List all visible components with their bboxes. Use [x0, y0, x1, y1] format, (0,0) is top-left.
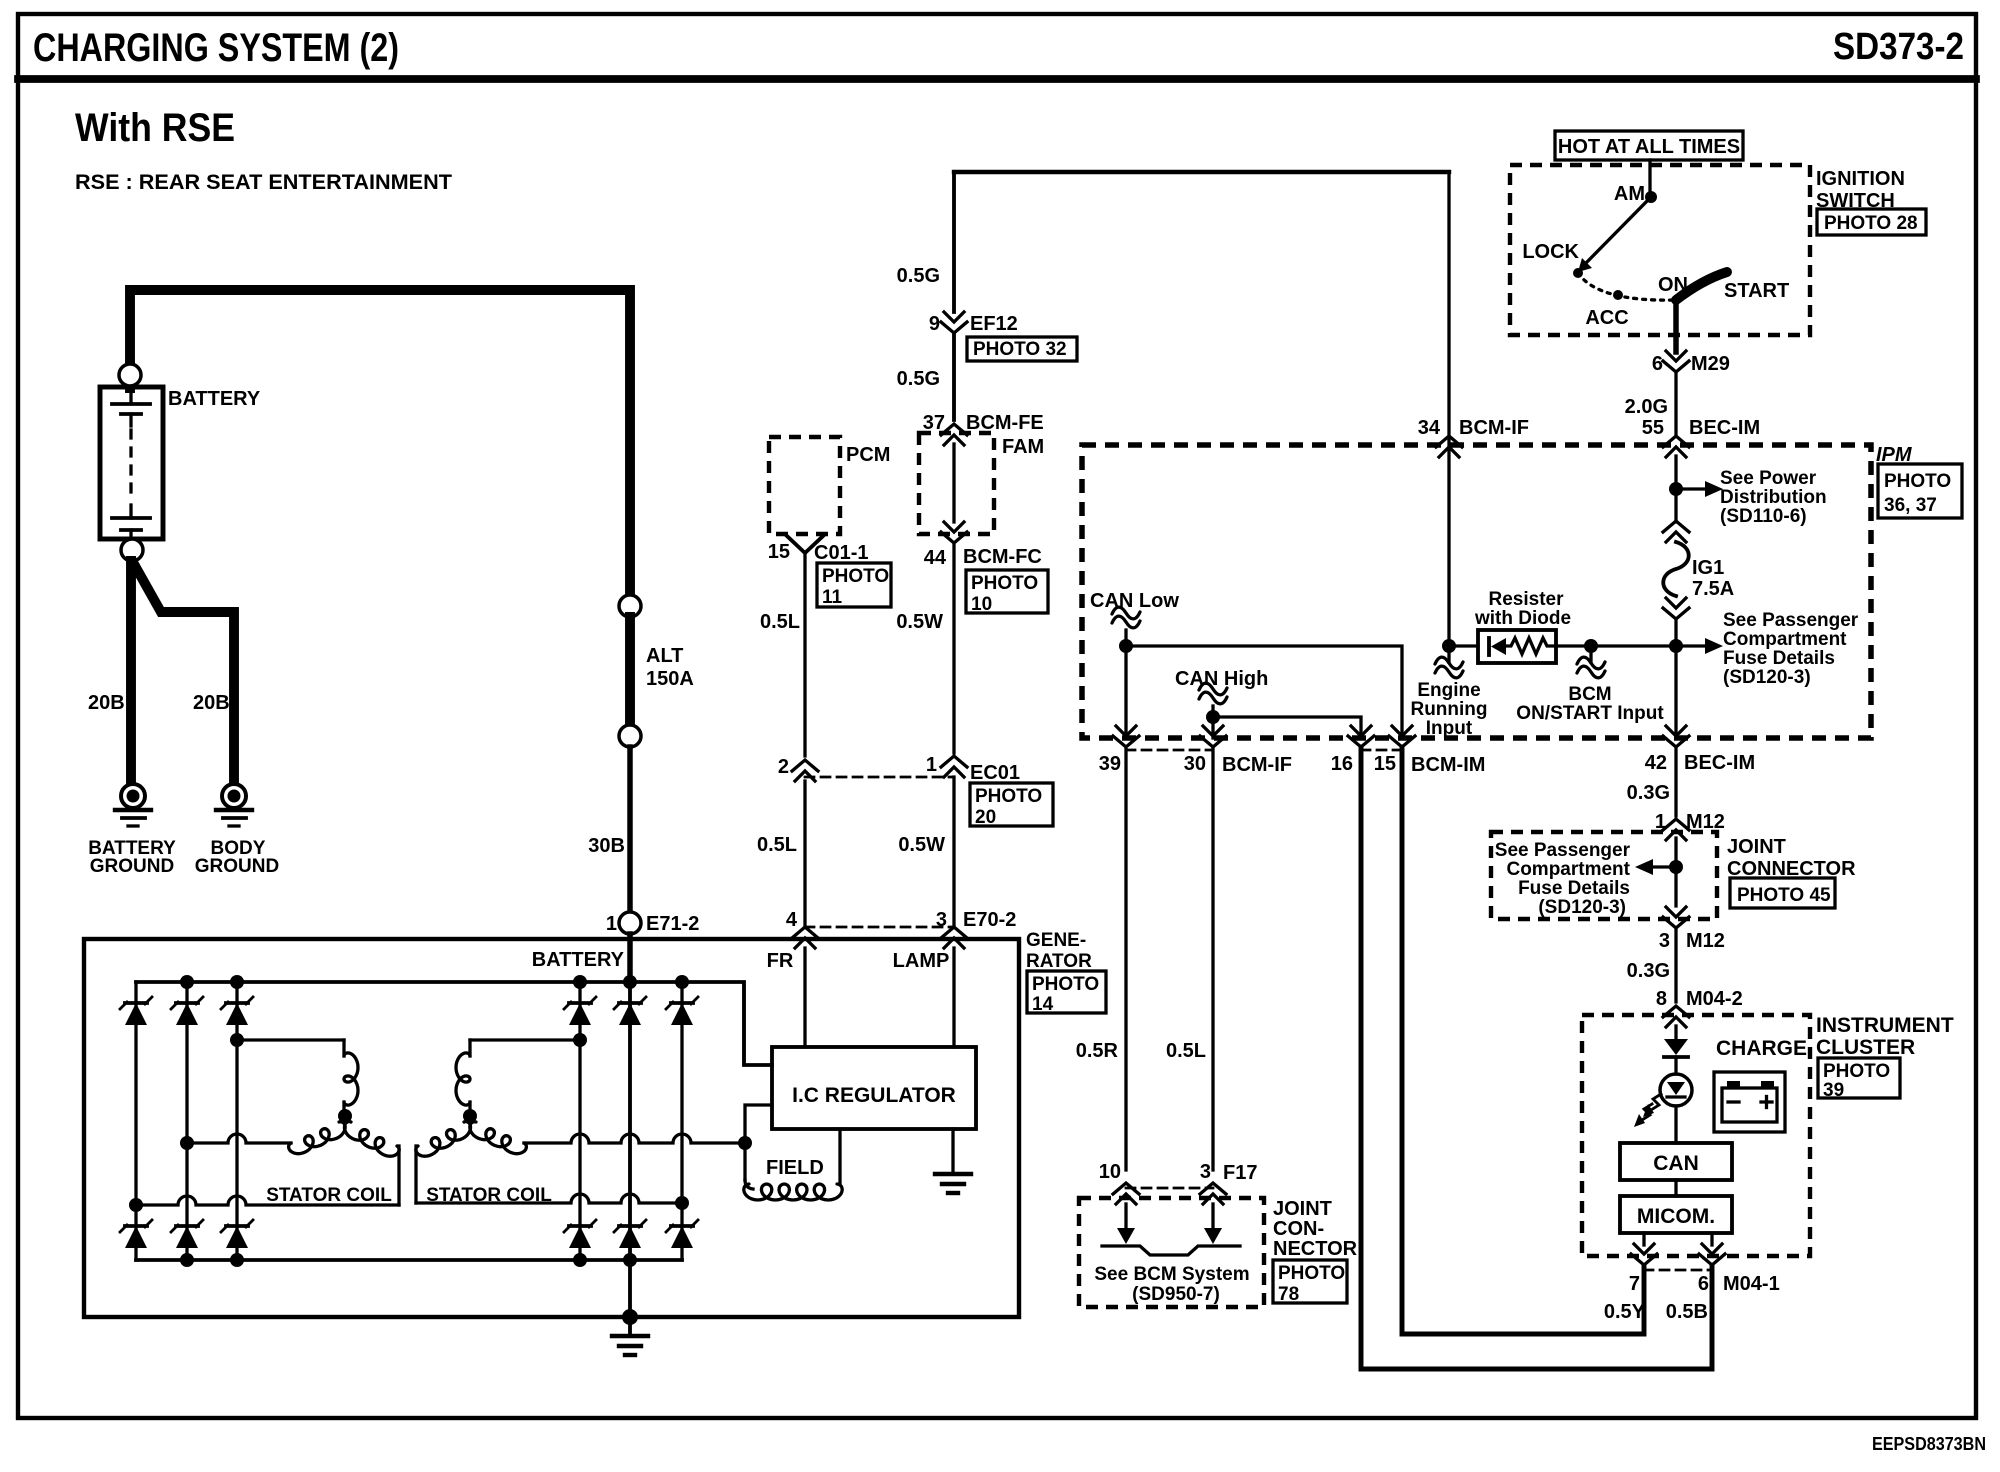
svg-text:0.5G: 0.5G [897, 368, 940, 390]
svg-text:0.3G: 0.3G [1627, 960, 1670, 982]
wire field return to regulator [838, 1129, 841, 1183]
photo box PHOTO 45 label [1730, 878, 1835, 908]
connector F17 pin 10 [1113, 1183, 1139, 1194]
svg-text:CLUSTER: CLUSTER [1816, 1036, 1915, 1059]
svg-text:IGNITION: IGNITION [1816, 168, 1905, 190]
svg-text:(SD120-3): (SD120-3) [1538, 897, 1626, 918]
svg-text:FAM: FAM [1002, 436, 1044, 458]
svg-text:PHOTO 28: PHOTO 28 [1824, 213, 1918, 234]
PCM box [769, 437, 840, 534]
svg-text:PHOTO: PHOTO [1278, 1263, 1345, 1284]
photo box PHOTO 20 [970, 783, 1053, 826]
connector 30 BCM-IF [1200, 736, 1226, 747]
svg-text:See Passenger: See Passenger [1723, 610, 1859, 631]
wire diode column 4 [578, 982, 581, 1260]
svg-text:ON/START Input: ON/START Input [1516, 703, 1664, 724]
wire stator1 right phase to column 1 (hops) [397, 1146, 400, 1205]
svg-text:I.C REGULATOR: I.C REGULATOR [792, 1084, 956, 1107]
connector EC01 pin 1 [941, 756, 967, 767]
svg-text:BCM: BCM [1568, 684, 1611, 705]
svg-text:CAN Low: CAN Low [1090, 590, 1179, 612]
svg-text:55: 55 [1642, 417, 1664, 439]
battery icon [1714, 1072, 1785, 1132]
svg-text:44: 44 [924, 547, 947, 569]
svg-text:(SD110-6): (SD110-6) [1720, 506, 1807, 527]
svg-text:Engine: Engine [1417, 680, 1480, 701]
diode D2 top [176, 1003, 198, 1025]
connector 16 BCM-IM [1348, 736, 1374, 747]
switch lever ON to START (thick) [1676, 272, 1727, 300]
svg-text:EC01: EC01 [970, 762, 1020, 784]
diode D5 top [619, 1003, 641, 1025]
svg-text:ACC: ACC [1585, 307, 1628, 329]
wire through joint connector [1674, 838, 1677, 906]
connector 39 BCM-IF [1113, 736, 1139, 747]
node AM terminal [1645, 191, 1657, 203]
svg-text:150A: 150A [646, 668, 694, 690]
wire resistor to junction [1556, 644, 1676, 647]
svg-text:8: 8 [1656, 988, 1667, 1010]
svg-text:Resister: Resister [1489, 589, 1565, 610]
svg-text:3: 3 [1659, 930, 1670, 952]
BCM on/start input stub [1589, 646, 1592, 662]
svg-text:20B: 20B [193, 692, 230, 714]
svg-text:Compartment: Compartment [1723, 629, 1847, 650]
svg-text:0.5B: 0.5B [1666, 1301, 1708, 1323]
ground generator [628, 1317, 632, 1336]
wire stator2 right phase to field junction (hops) [524, 1134, 745, 1143]
diode D4 bottom [569, 1226, 591, 1248]
instrument cluster box [1582, 1015, 1810, 1256]
connector E71-2 pin 1 [619, 912, 641, 934]
wire ON output [1673, 300, 1679, 352]
svg-text:PCM: PCM [846, 444, 890, 466]
wire 0.5R to F17-10 [1124, 747, 1127, 1170]
LED arrows [1651, 1094, 1661, 1110]
dashed connector pair line EC01 [805, 776, 954, 779]
connector 42 BEC-IM [1663, 736, 1689, 747]
dashed pair 39-30 [1126, 749, 1213, 752]
connector 34 BCM-IF [1436, 436, 1462, 447]
svg-text:RATOR: RATOR [1026, 951, 1092, 972]
title divider [18, 75, 1976, 83]
joint connector box PHOTO 45 [1491, 832, 1717, 919]
wire BCM-IM 15 to cluster pin 7 [1402, 747, 1644, 1334]
wire CAN high to BCM-IM 16 [1213, 717, 1361, 738]
fuse IG1 7.5A [1663, 521, 1689, 532]
connector 55 BEC-IM [1663, 436, 1689, 447]
wire 0.5G lower [952, 333, 956, 420]
svg-text:HOT AT ALL TIMES: HOT AT ALL TIMES [1558, 136, 1740, 158]
connector 44 BCM-FC [941, 532, 967, 543]
photo box PHOTO 36 37 [1878, 464, 1962, 518]
svg-text:CHARGE: CHARGE [1716, 1037, 1807, 1060]
wire diode column 1 [134, 982, 137, 1260]
stator coil 1 right winding [345, 1122, 400, 1157]
svg-text:0.5G: 0.5G [897, 265, 940, 287]
svg-text:START: START [1724, 280, 1789, 302]
svg-text:BEC-IM: BEC-IM [1684, 752, 1755, 774]
wire BEC-IM into IPM [1674, 456, 1677, 522]
connector M04-2 pin 8 [1663, 1006, 1689, 1017]
diode D4 top [569, 1003, 591, 1025]
svg-text:M04-1: M04-1 [1723, 1273, 1780, 1295]
svg-text:BEC-IM: BEC-IM [1689, 417, 1760, 439]
connector F17 pin 3 [1200, 1183, 1226, 1194]
svg-text:15: 15 [1374, 753, 1396, 775]
diode D1 bottom [125, 1226, 147, 1248]
photo box PHOTO 78 label [1273, 1260, 1347, 1303]
photo box PHOTO 32 [967, 337, 1077, 361]
svg-text:AM: AM [1614, 183, 1645, 205]
svg-text:10: 10 [1099, 1161, 1121, 1183]
svg-text:7.5A: 7.5A [1692, 578, 1734, 600]
svg-text:1: 1 [1655, 811, 1666, 833]
svg-text:See Passenger: See Passenger [1495, 840, 1631, 861]
svg-text:LAMP: LAMP [893, 950, 950, 972]
svg-text:EEPSD8373BN: EEPSD8373BN [1872, 1434, 1986, 1454]
FAM box [919, 433, 994, 534]
svg-text:FR: FR [767, 950, 794, 972]
svg-text:0.5W: 0.5W [898, 834, 945, 856]
wire ALT to E71-2 [627, 747, 633, 912]
svg-text:4: 4 [786, 909, 798, 931]
svg-text:M04-2: M04-2 [1686, 988, 1743, 1010]
svg-text:INSTRUMENT: INSTRUMENT [1816, 1014, 1954, 1037]
svg-text:E71-2: E71-2 [646, 913, 699, 935]
svg-text:Compartment: Compartment [1506, 859, 1630, 880]
svg-text:PHOTO: PHOTO [1884, 471, 1951, 492]
svg-text:Fuse Details: Fuse Details [1723, 648, 1835, 669]
svg-text:GROUND: GROUND [90, 856, 174, 877]
svg-text:JOINT: JOINT [1727, 836, 1786, 858]
joint connector box PHOTO 78 [1079, 1198, 1264, 1307]
svg-text:BCM-IM: BCM-IM [1411, 754, 1485, 776]
svg-text:Running: Running [1410, 699, 1487, 720]
wire hot feed to AM [1648, 160, 1651, 196]
CAN box [1620, 1143, 1732, 1180]
node ACC position [1613, 290, 1623, 300]
svg-text:PHOTO 45: PHOTO 45 [1737, 885, 1831, 906]
svg-text:BCM-FC: BCM-FC [963, 546, 1042, 568]
svg-text:0.5W: 0.5W [896, 611, 943, 633]
svg-text:0.5R: 0.5R [1076, 1040, 1119, 1062]
field coil [743, 1143, 746, 1180]
arrow F17-3 into bus [1211, 1204, 1214, 1230]
regulator U1 I.C REGULATOR [772, 1047, 976, 1129]
node bottom bus junctions [180, 1253, 194, 1267]
arrow to power distribution [1683, 487, 1705, 490]
wire MICOM pin7 [1642, 1233, 1645, 1245]
connector C01-1 pin 15 fanout [787, 536, 823, 553]
HOT AT ALL TIMES box [1555, 131, 1743, 160]
arrow to passenger fuse details left [1653, 865, 1669, 868]
svg-text:PHOTO: PHOTO [971, 573, 1038, 594]
svg-text:2.0G: 2.0G [1625, 396, 1668, 418]
svg-text:16: 16 [1331, 753, 1353, 775]
svg-text:0.3G: 0.3G [1627, 782, 1670, 804]
svg-text:ALT: ALT [646, 645, 683, 667]
wire stator1 left phase to column 2 (hop over col3) [187, 1134, 291, 1143]
node power distribution tap [1669, 482, 1683, 496]
svg-text:30: 30 [1184, 753, 1206, 775]
node top bus junctions [180, 975, 194, 989]
svg-text:with Diode: with Diode [1474, 608, 1571, 629]
connector M12 pin 3 [1663, 917, 1689, 928]
connector 15 BCM-IM [1389, 736, 1415, 747]
svg-text:9: 9 [929, 313, 940, 335]
svg-text:37: 37 [923, 412, 945, 434]
connector EF12 pin 9 [941, 322, 967, 333]
wire battery column through generator [628, 982, 632, 1317]
svg-text:GENE-: GENE- [1026, 930, 1086, 951]
node resistor input [1442, 639, 1456, 653]
arrow to passenger fuse details [1683, 644, 1705, 647]
svg-text:C01-1: C01-1 [814, 542, 868, 564]
svg-text:JOINT: JOINT [1273, 1198, 1332, 1220]
svg-text:(SD950-7): (SD950-7) [1132, 1284, 1220, 1305]
connector EC01 pin 2 [792, 760, 818, 771]
svg-text:42: 42 [1645, 752, 1667, 774]
svg-text:1: 1 [926, 754, 937, 776]
stator coil 2 vertical winding [468, 1040, 471, 1056]
svg-text:E70-2: E70-2 [963, 909, 1016, 931]
arrow F17-10 into bus [1124, 1204, 1127, 1230]
dashed pair M04-1 [1644, 1269, 1712, 1272]
switch travel arc LOCK-ACC-ON [1578, 273, 1676, 300]
connector M04-1 pin 6 [1699, 1254, 1725, 1265]
wire diode column 3 [235, 982, 238, 1260]
svg-text:15: 15 [768, 541, 790, 563]
svg-text:PHOTO: PHOTO [975, 786, 1042, 807]
stator coil 2 right winding [470, 1122, 527, 1154]
photo box PHOTO 10 [966, 570, 1048, 613]
battery bottom terminal [121, 539, 143, 561]
svg-text:FIELD: FIELD [766, 1157, 824, 1179]
battery B1 [100, 387, 163, 539]
svg-text:(SD120-3): (SD120-3) [1723, 667, 1811, 688]
svg-text:CAN: CAN [1653, 1152, 1699, 1175]
engine running input stub [1447, 646, 1450, 662]
svg-text:0.5L: 0.5L [1166, 1040, 1206, 1062]
wire fuse to junction [1674, 621, 1677, 738]
generator box [84, 939, 1019, 1317]
svg-text:3: 3 [1200, 1161, 1211, 1183]
svg-text:14: 14 [1032, 994, 1054, 1015]
wire generator bottom bus [136, 1258, 682, 1262]
wire battery negative to grounds (thick) [126, 561, 136, 784]
wire BCM-IF drop [1447, 172, 1450, 646]
wire 2.0G [1674, 372, 1677, 434]
wire top link EF12 to BCM-IF [954, 170, 1449, 174]
svg-text:STATOR COIL: STATOR COIL [266, 1185, 392, 1206]
svg-text:Distribution: Distribution [1720, 487, 1827, 508]
stator coil 2 left winding [416, 1122, 471, 1157]
dashed pair 16-15 [1361, 749, 1402, 752]
svg-text:0.5L: 0.5L [757, 834, 797, 856]
node field junction [738, 1136, 752, 1150]
svg-text:2: 2 [778, 756, 789, 778]
diode cluster [1664, 1039, 1688, 1055]
wire 0.5W upper [952, 545, 955, 753]
resistor with diode R1 [1449, 644, 1478, 647]
svg-text:PHOTO 32: PHOTO 32 [973, 339, 1067, 360]
node CAN low tap [1119, 639, 1133, 653]
wire battery positive to ALT (thick) [130, 290, 630, 596]
svg-text:M12: M12 [1686, 930, 1725, 952]
connector 37 BCM-FE [941, 424, 967, 435]
wire FR into regulator [803, 948, 806, 1047]
svg-text:36, 37: 36, 37 [1884, 495, 1937, 516]
dashed connector pair line E70-2 [805, 926, 954, 929]
svg-text:See Power: See Power [1720, 468, 1817, 489]
node BCM junction [1669, 639, 1683, 653]
wire inside FAM [952, 444, 955, 522]
node generator ground junction [622, 1309, 638, 1325]
svg-text:1: 1 [606, 913, 617, 935]
svg-text:20B: 20B [88, 692, 125, 714]
dashed pair F17 [1126, 1187, 1213, 1190]
svg-text:10: 10 [971, 594, 992, 615]
svg-text:20: 20 [975, 807, 996, 828]
IPM box [1082, 445, 1871, 738]
node fuse details tap [1669, 860, 1683, 874]
wire into cluster [1674, 1026, 1677, 1040]
svg-text:M29: M29 [1691, 353, 1730, 375]
wire 0.3G lower [1674, 928, 1677, 1002]
wire CAN low to BCM-IM 15 [1126, 646, 1402, 738]
MICOM box [1620, 1196, 1732, 1233]
svg-text:BCM-IF: BCM-IF [1459, 417, 1529, 439]
photo box PHOTO 39 [1818, 1058, 1900, 1098]
wire 0.5L upper [803, 553, 806, 756]
node BCM on/start tap [1584, 639, 1598, 653]
node LOCK position [1573, 268, 1583, 278]
svg-text:BATTERY: BATTERY [168, 388, 261, 410]
svg-text:78: 78 [1278, 1284, 1299, 1305]
wire LAMP into regulator [952, 948, 955, 1047]
node stator2 centre [463, 1109, 477, 1123]
connector 3 LAMP at generator [941, 927, 967, 938]
wire 0.5L lower [803, 781, 806, 927]
wire MICOM pin6 [1710, 1233, 1713, 1245]
svg-text:GROUND: GROUND [195, 856, 279, 877]
ignition switch box [1510, 165, 1810, 335]
svg-text:EF12: EF12 [970, 313, 1018, 335]
svg-text:CON-: CON- [1273, 1218, 1324, 1240]
switch lever AM to LOCK [1585, 197, 1651, 264]
wire stator2 left phase to column 6 (hops) [414, 1146, 417, 1203]
diode D1 top [125, 1003, 147, 1025]
connector 4 FR at generator [792, 927, 818, 938]
wire regulator lower-left to field junction [745, 1105, 772, 1143]
wire LED to CAN [1674, 1106, 1677, 1143]
svg-text:F17: F17 [1223, 1162, 1257, 1184]
wire 0.5W lower [952, 777, 955, 927]
diode D5 bottom [619, 1226, 641, 1248]
svg-text:PHOTO: PHOTO [1032, 974, 1099, 995]
photo box PHOTO 11 [817, 563, 891, 607]
svg-text:6: 6 [1652, 353, 1663, 375]
wire diode column 6 [680, 982, 683, 1260]
svg-text:PHOTO: PHOTO [822, 566, 889, 587]
svg-text:PHOTO: PHOTO [1823, 1061, 1890, 1082]
diode D3 top [226, 1003, 248, 1025]
svg-text:30B: 30B [588, 835, 625, 857]
svg-text:BCM-IF: BCM-IF [1222, 754, 1292, 776]
svg-text:6: 6 [1698, 1273, 1709, 1295]
wire 0.5L to F17-3 [1211, 747, 1214, 1170]
svg-text:39: 39 [1099, 753, 1121, 775]
joint bus bracket [1102, 1246, 1240, 1255]
svg-text:0.5Y: 0.5Y [1604, 1301, 1646, 1323]
fusible link ALT 150A [619, 595, 641, 617]
svg-text:7: 7 [1629, 1273, 1640, 1295]
wire stator2 phase to column 4 [470, 1038, 580, 1041]
svg-text:STATOR COIL: STATOR COIL [426, 1185, 552, 1206]
ground regulator [951, 1129, 954, 1174]
wire stator1 phase to column 3 [237, 1038, 344, 1041]
wire CAN to MICOM [1674, 1180, 1677, 1196]
ground body-ground lug [222, 784, 246, 808]
LED charge lamp [1660, 1074, 1692, 1106]
diode D6 top [671, 1003, 693, 1025]
svg-text:MICOM.: MICOM. [1637, 1205, 1715, 1228]
ground battery-ground lug [121, 784, 145, 808]
node CAN high tap [1206, 710, 1220, 724]
svg-text:IG1: IG1 [1692, 557, 1724, 579]
diode D6 bottom [671, 1226, 693, 1248]
diode D2 bottom [176, 1226, 198, 1248]
svg-text:0.5L: 0.5L [760, 611, 800, 633]
svg-text:Input: Input [1426, 718, 1473, 739]
wire diode column 2 [185, 982, 188, 1260]
battery top terminal [119, 364, 141, 386]
svg-text:RSE : REAR SEAT ENTERTAINMENT: RSE : REAR SEAT ENTERTAINMENT [75, 171, 452, 194]
svg-text:M12: M12 [1686, 811, 1725, 833]
svg-text:11: 11 [822, 587, 843, 608]
connector M04-1 pin 7 [1631, 1254, 1657, 1265]
svg-text:CHARGING SYSTEM (2): CHARGING SYSTEM (2) [33, 26, 399, 70]
photo box PHOTO 14 [1027, 971, 1106, 1013]
photo box PHOTO 28 [1817, 209, 1926, 235]
stator coil 1 left winding [289, 1122, 346, 1154]
svg-text:Fuse Details: Fuse Details [1518, 878, 1630, 899]
svg-text:39: 39 [1823, 1080, 1844, 1101]
svg-text:NECTOR: NECTOR [1273, 1238, 1358, 1260]
svg-text:BATTERY: BATTERY [532, 949, 625, 971]
wire BCM-IM 16 to cluster pin 6 [1361, 747, 1712, 1369]
svg-text:SD373-2: SD373-2 [1833, 26, 1964, 68]
svg-text:CAN High: CAN High [1175, 668, 1268, 690]
stator coil 1 vertical winding [342, 1040, 345, 1056]
svg-text:34: 34 [1418, 417, 1441, 439]
svg-text:See BCM System: See BCM System [1094, 1264, 1249, 1285]
node stator1 centre [338, 1109, 352, 1123]
svg-text:With RSE: With RSE [75, 106, 235, 150]
connector M12 pin 1 [1663, 819, 1689, 830]
wire 0.5G upper [952, 172, 956, 312]
diode D3 bottom [226, 1226, 248, 1248]
svg-text:LOCK: LOCK [1522, 241, 1579, 263]
connector M29 pin 6 [1663, 361, 1689, 372]
svg-text:BCM-FE: BCM-FE [966, 412, 1044, 434]
wire generator top bus [136, 982, 772, 1065]
